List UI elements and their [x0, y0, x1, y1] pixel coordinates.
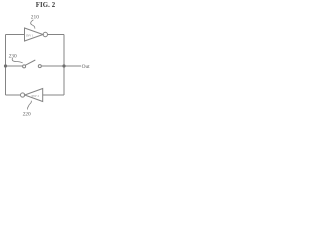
wire top output [48, 34, 64, 36]
junction right [62, 64, 65, 67]
inverter 220 [21, 89, 43, 102]
wire out stub [64, 65, 81, 67]
svg-text:FIG. 2: FIG. 2 [36, 2, 56, 9]
wire right rail [63, 35, 65, 96]
wire bottom right [43, 94, 64, 96]
wire top input [6, 34, 25, 36]
wire left rail [5, 35, 7, 96]
wire bottom left [6, 94, 21, 96]
inverter 210 [25, 28, 48, 41]
wire middle left [6, 65, 23, 67]
svg-text:230: 230 [9, 54, 17, 60]
svg-text:Out: Out [82, 64, 91, 70]
svg-text:INV 1: INV 1 [26, 34, 34, 38]
wire middle right [41, 65, 64, 67]
junction left [4, 64, 7, 67]
switch 230 [23, 60, 42, 68]
svg-text:220: 220 [23, 111, 31, 117]
svg-text:INV 2: INV 2 [32, 94, 40, 98]
svg-text:210: 210 [31, 14, 39, 20]
